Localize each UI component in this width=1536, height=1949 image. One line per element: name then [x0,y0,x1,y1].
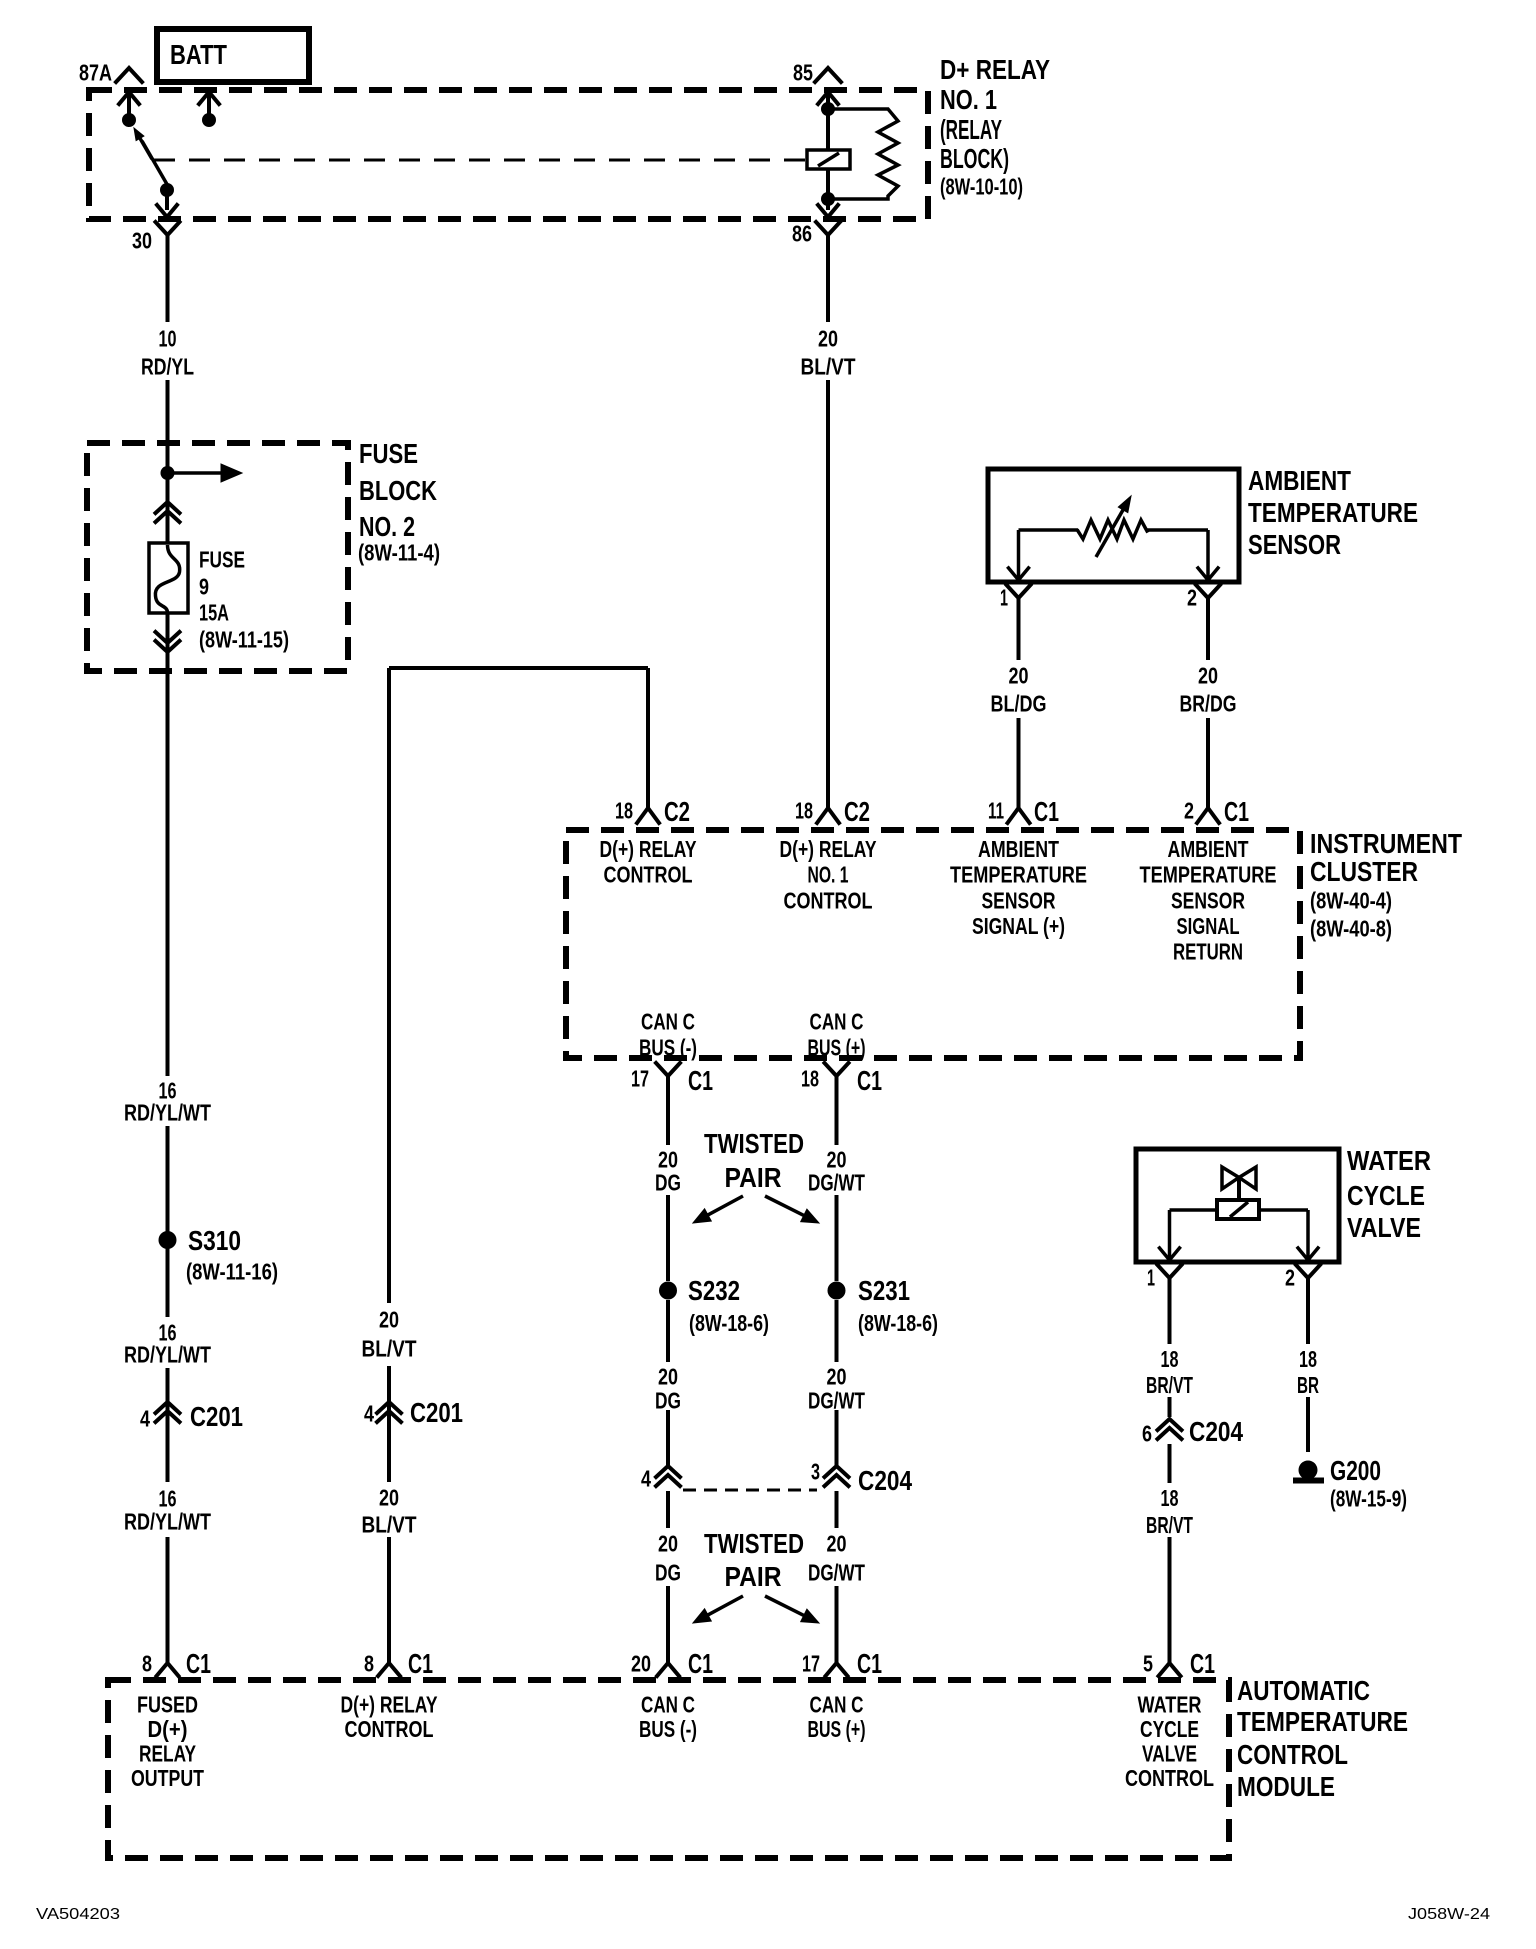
svg-text:CYCLE: CYCLE [1347,1180,1425,1211]
svg-text:VALVE: VALVE [1347,1212,1421,1243]
valve pin 2 connector [1296,1265,1320,1278]
svg-text:SENSOR: SENSOR [1248,529,1341,560]
svg-text:DG: DG [655,1559,681,1585]
svg-text:CAN C: CAN C [810,1691,864,1717]
splice S310 [159,1231,177,1249]
thermistor RT (variable resistor) [1078,520,1147,539]
svg-text:30: 30 [132,227,152,253]
svg-text:20: 20 [1198,662,1218,688]
splice S232 [659,1282,677,1300]
svg-text:TEMPERATURE: TEMPERATURE [1248,497,1418,528]
svg-text:20: 20 [818,325,838,351]
svg-text:G200: G200 [1330,1455,1381,1486]
svg-text:C1: C1 [408,1648,433,1679]
svg-text:J058W-24: J058W-24 [1408,1906,1490,1923]
svg-text:TEMPERATURE: TEMPERATURE [1140,861,1277,887]
svg-text:BUS (+): BUS (+) [808,1034,866,1060]
relay switch arm [142,141,168,186]
svg-text:20: 20 [827,1363,847,1389]
svg-text:INSTRUMENT: INSTRUMENT [1310,828,1462,859]
svg-text:RD/YL/WT: RD/YL/WT [124,1341,211,1367]
sensor pin 1 connector [1007,585,1031,598]
svg-text:C1: C1 [857,1648,882,1679]
svg-text:10: 10 [159,325,177,351]
fuse block no. 2 (dashed outline) [87,443,348,671]
svg-text:RD/YL/WT: RD/YL/WT [124,1099,211,1125]
suppression resistor [828,109,898,199]
cluster pin 18 C1 connector (CAN C bus +) [825,1063,849,1076]
svg-text:SENSOR: SENSOR [982,887,1056,913]
connector C204 pin 3 [825,1466,849,1477]
svg-text:BLOCK: BLOCK [359,475,437,506]
connector C201 pin 4 (right) [377,1402,401,1413]
wire 16 RD/YL/WT (fuse to S310) [166,671,170,1076]
svg-text:C204: C204 [1189,1416,1243,1447]
svg-text:(8W-40-4): (8W-40-4) [1310,887,1392,913]
wire 20 BR/DG (sensor 2 to cluster) [1206,609,1210,660]
svg-text:20: 20 [658,1363,678,1389]
svg-text:17: 17 [631,1065,649,1091]
junction dot in fuse block [161,466,175,480]
water cycle valve box [1136,1149,1339,1262]
svg-text:AMBIENT: AMBIENT [1248,465,1351,496]
svg-text:WATER: WATER [1347,1145,1431,1176]
svg-text:CAN C: CAN C [641,1691,695,1717]
svg-text:BL/VT: BL/VT [362,1511,417,1537]
connector C204 pin 4 [656,1466,680,1477]
wire 10 RD/YL (battery to fuse block) [166,246,170,322]
svg-text:WATER: WATER [1138,1691,1202,1717]
svg-text:TWISTED: TWISTED [704,1128,804,1159]
svg-text:BR/VT: BR/VT [1146,1372,1193,1398]
cluster pin 18 C2 connector (D+ relay control) [637,808,659,823]
svg-text:18: 18 [795,797,813,823]
svg-text:C204: C204 [858,1465,912,1496]
svg-text:DG: DG [655,1169,681,1195]
instrument cluster box (dashed) [566,830,1300,1058]
ATC module pin 20 C1 connector (CAN C bus -) [657,1663,679,1676]
wire 20 DG (C204 to ATC) [666,1491,670,1528]
junction dot 87A [122,113,136,127]
svg-text:4: 4 [140,1405,150,1431]
svg-text:C1: C1 [688,1065,713,1096]
svg-text:BLOCK): BLOCK) [940,143,1009,174]
svg-text:BUS (-): BUS (-) [639,1716,697,1742]
svg-text:3: 3 [811,1458,820,1484]
svg-text:CYCLE: CYCLE [1140,1716,1199,1742]
svg-text:C1: C1 [1224,796,1249,827]
valve solenoid coil [1217,1200,1259,1219]
svg-text:C201: C201 [410,1397,463,1428]
ATC module pin 8 C1 connector [157,1663,179,1676]
svg-text:BR/DG: BR/DG [1180,690,1237,716]
svg-text:DG/WT: DG/WT [808,1559,865,1585]
sensor leads [1019,528,1079,532]
terminal 85 chevron [815,68,841,82]
svg-text:OUTPUT: OUTPUT [131,1765,204,1791]
svg-text:C2: C2 [664,796,690,827]
svg-text:D(+) RELAY: D(+) RELAY [600,836,697,862]
fuse block internal connector (double chevron down) [156,632,180,643]
svg-text:20: 20 [379,1484,399,1510]
svg-text:BR: BR [1297,1372,1319,1398]
svg-text:PAIR: PAIR [725,1162,782,1193]
sensor pin 2 connector [1196,585,1220,598]
svg-text:(8W-11-16): (8W-11-16) [186,1258,278,1284]
svg-text:2: 2 [1187,584,1197,610]
svg-text:4: 4 [641,1465,651,1491]
svg-text:D+ RELAY: D+ RELAY [940,54,1050,85]
svg-text:S232: S232 [688,1275,740,1306]
svg-text:2: 2 [1285,1264,1295,1290]
svg-text:NO. 1: NO. 1 [940,84,997,115]
svg-text:(8W-15-9): (8W-15-9) [1330,1485,1407,1511]
svg-text:(RELAY: (RELAY [940,114,1002,145]
svg-text:C2: C2 [844,796,870,827]
ATC module pin 17 C1 connector (CAN C bus +) [826,1663,848,1676]
svg-text:C1: C1 [688,1648,713,1679]
svg-text:BUS (+): BUS (+) [808,1716,866,1742]
svg-text:8: 8 [142,1650,152,1676]
connector C204 pin 6 [1158,1419,1182,1430]
valve pin 1 connector [1158,1265,1182,1278]
svg-text:6: 6 [1142,1420,1152,1446]
svg-text:18: 18 [1161,1485,1179,1511]
relay switch pivot dot [160,183,174,197]
cluster pin 2 C1 connector [1197,808,1219,823]
svg-text:2: 2 [1184,797,1194,823]
svg-text:AMBIENT: AMBIENT [978,836,1059,862]
svg-text:VA504203: VA504203 [36,1906,120,1923]
svg-text:SENSOR: SENSOR [1171,887,1245,913]
ground G200 [1299,1461,1318,1480]
relay contact terminal 87A arrow [119,92,139,104]
wire 20 DG/WT (C204 to ATC) [835,1491,839,1528]
terminal 30 connector [156,222,180,235]
svg-text:CONTROL: CONTROL [1237,1739,1348,1770]
svg-text:FUSED: FUSED [137,1691,198,1717]
svg-text:9: 9 [199,573,209,599]
battery feed terminal arrow [199,92,219,104]
svg-text:CONTROL: CONTROL [784,887,873,913]
svg-text:85: 85 [793,59,813,85]
svg-text:(8W-11-15): (8W-11-15) [199,626,289,652]
svg-text:18: 18 [1161,1346,1179,1372]
svg-text:S231: S231 [858,1275,910,1306]
svg-text:BUS (-): BUS (-) [639,1034,697,1060]
svg-text:S310: S310 [188,1225,241,1256]
svg-text:BL/VT: BL/VT [362,1335,417,1361]
svg-text:5: 5 [1143,1650,1153,1676]
svg-text:C201: C201 [190,1401,243,1432]
svg-text:DG: DG [655,1387,681,1413]
svg-text:18: 18 [615,797,633,823]
wire to instrument cluster pin 18 C2 [646,668,650,808]
valve symbol (bowtie) [1222,1167,1239,1189]
terminal 86 connector [816,222,840,235]
wire 16 RD/YL/WT (S310 to C201) [166,1248,170,1317]
splice S231 [828,1282,846,1300]
svg-text:CLUSTER: CLUSTER [1310,856,1418,887]
wire 20 DG (S232 to C204) [666,1300,670,1362]
svg-text:FUSE: FUSE [359,438,418,469]
valve leads [1170,1208,1218,1212]
ATC module pin 8 C1 connector (D+ relay control) [378,1663,400,1676]
svg-text:CONTROL: CONTROL [604,861,693,887]
svg-text:17: 17 [802,1650,820,1676]
ambient temperature sensor box [988,469,1239,582]
svg-text:(8W-18-6): (8W-18-6) [858,1310,938,1336]
svg-text:FUSE: FUSE [199,546,245,572]
svg-text:MODULE: MODULE [1237,1771,1335,1802]
svg-text:AUTOMATIC: AUTOMATIC [1237,1675,1370,1706]
svg-text:SIGNAL: SIGNAL [1177,913,1240,939]
wire inside fuse block [166,443,170,543]
svg-text:D(+) RELAY: D(+) RELAY [341,1691,438,1717]
svg-text:(8W-10-10): (8W-10-10) [940,173,1023,199]
wire 20 BL/DG (sensor 1 to cluster) [1017,609,1021,660]
svg-text:NO. 2: NO. 2 [359,511,415,542]
wire 18 BR/VT (C204 to ATC) [1168,1444,1172,1483]
wire 20 BL/VT corner (cluster D+ relay control to ATC) [389,666,648,670]
svg-text:1: 1 [1147,1264,1155,1290]
svg-text:BL/DG: BL/DG [991,690,1047,716]
ATC module pin 5 C1 connector [1159,1663,1181,1676]
svg-text:(8W-11-4): (8W-11-4) [358,539,440,565]
svg-text:TEMPERATURE: TEMPERATURE [1237,1706,1408,1737]
svg-text:D(+): D(+) [148,1716,188,1742]
svg-text:20: 20 [827,1530,847,1556]
fuse block internal connector (double chevron up) [156,502,180,513]
svg-text:RELAY: RELAY [139,1740,196,1766]
wire 16 RD/YL/WT (C201 to ATC module) [166,1537,170,1663]
relay coil bottom dot [821,192,835,206]
svg-text:CONTROL: CONTROL [345,1716,434,1742]
wire 18 BR (valve 2 to ground) [1306,1289,1310,1344]
svg-text:DG/WT: DG/WT [808,1169,865,1195]
svg-text:PAIR: PAIR [725,1561,782,1592]
cluster pin 11 C1 connector [1008,808,1030,823]
relay coil U? (winding with slash) [807,150,850,169]
svg-text:18: 18 [801,1065,819,1091]
svg-text:1: 1 [1000,584,1008,610]
svg-text:RD/YL/WT: RD/YL/WT [124,1508,211,1534]
automatic temperature control module box (dashed) [108,1680,1229,1858]
cluster pin 17 C1 connector (CAN C bus -) [656,1063,680,1076]
svg-text:87A: 87A [79,59,112,85]
svg-text:11: 11 [988,797,1004,823]
svg-text:(8W-18-6): (8W-18-6) [689,1310,769,1336]
relay actuation dashed link [154,159,806,162]
fuse F9 15A [149,543,188,613]
terminal 87A chevron [116,68,142,82]
svg-text:20: 20 [379,1306,399,1332]
wire 20 BL/VT (terminal 86 to cluster) [826,246,830,322]
svg-text:BR/VT: BR/VT [1146,1512,1193,1538]
relay switch output arrow to terminal 30 [165,196,169,210]
svg-text:CONTROL: CONTROL [1125,1765,1214,1791]
svg-text:DG/WT: DG/WT [808,1387,865,1413]
svg-text:BATT: BATT [170,39,227,70]
feed arrow to other circuits [168,471,222,475]
svg-text:(8W-40-8): (8W-40-8) [1310,915,1392,941]
svg-text:20: 20 [658,1530,678,1556]
svg-text:RETURN: RETURN [1173,938,1243,964]
svg-text:C1: C1 [186,1648,211,1679]
relay coil vertical wire [818,92,838,104]
svg-text:VALVE: VALVE [1142,1740,1197,1766]
svg-text:TEMPERATURE: TEMPERATURE [950,861,1087,887]
svg-text:D(+) RELAY: D(+) RELAY [780,836,877,862]
svg-text:18: 18 [1299,1346,1317,1372]
svg-text:C1: C1 [857,1065,882,1096]
relay coil top dot [821,102,835,116]
svg-text:AMBIENT: AMBIENT [1168,836,1249,862]
wire 20 DG/WT (cluster to S231) [835,1087,839,1145]
wire 20 DG (cluster to S232) [666,1087,670,1145]
wire 18 BR/VT (valve 1 to C204) [1168,1289,1172,1344]
svg-text:NO. 1: NO. 1 [808,861,849,887]
svg-text:CAN C: CAN C [810,1008,864,1034]
relay block (dashed outline) [89,90,928,219]
svg-text:4: 4 [364,1400,374,1426]
svg-text:86: 86 [792,220,812,246]
svg-text:15A: 15A [199,599,229,625]
svg-text:8: 8 [364,1650,374,1676]
svg-text:TWISTED: TWISTED [704,1528,804,1559]
svg-text:BL/VT: BL/VT [801,353,856,379]
svg-text:RD/YL: RD/YL [141,353,194,379]
wire 20 DG/WT (S231 to C204) [835,1300,839,1362]
connector C204 dashed link [683,1489,817,1492]
connector C201 pin 4 (left) [156,1402,180,1413]
svg-text:C1: C1 [1034,796,1059,827]
svg-text:C1: C1 [1190,1648,1215,1679]
battery feed box BATT [157,29,309,82]
svg-text:20: 20 [631,1650,651,1676]
svg-text:SIGNAL (+): SIGNAL (+) [972,913,1065,939]
svg-text:20: 20 [1009,662,1029,688]
cluster pin 18 C2 connector (D+ relay no.1 control) [817,808,839,823]
junction dot battery feed [202,113,216,127]
svg-text:CAN C: CAN C [641,1008,695,1034]
